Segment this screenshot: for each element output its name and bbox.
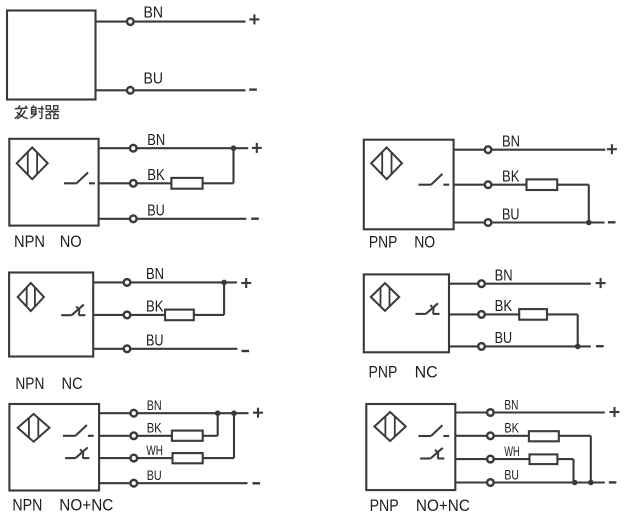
svg-text:BU: BU	[147, 203, 165, 220]
svg-text:BN: BN	[147, 132, 165, 149]
svg-text:NO: NO	[414, 232, 435, 251]
svg-text:BK: BK	[502, 169, 520, 186]
svg-text:PNP: PNP	[369, 362, 398, 381]
svg-text:NC: NC	[415, 362, 438, 381]
svg-text:NPN: NPN	[14, 232, 45, 251]
svg-text:BN: BN	[144, 4, 164, 21]
svg-text:BN: BN	[146, 266, 164, 283]
svg-text:BU: BU	[504, 466, 519, 482]
svg-text:WH: WH	[146, 442, 163, 458]
svg-text:NC: NC	[62, 374, 83, 393]
svg-text:NO: NO	[60, 232, 82, 251]
svg-text:BU: BU	[495, 330, 512, 347]
svg-text:BK: BK	[146, 299, 164, 316]
svg-text:PNP: PNP	[369, 232, 398, 251]
svg-text:BN: BN	[502, 134, 520, 151]
svg-text:BK: BK	[147, 420, 163, 436]
svg-text:BN: BN	[504, 396, 518, 412]
svg-text:BU: BU	[502, 206, 520, 223]
svg-text:NPN: NPN	[12, 495, 42, 514]
svg-text:PNP: PNP	[370, 496, 399, 515]
svg-text:NO+NC: NO+NC	[59, 495, 113, 514]
svg-text:BU: BU	[147, 467, 162, 483]
svg-text:BU: BU	[146, 333, 164, 350]
svg-text:BK: BK	[495, 298, 513, 315]
svg-text:BK: BK	[147, 167, 165, 184]
svg-text:NPN: NPN	[15, 374, 44, 393]
svg-text:BK: BK	[504, 420, 519, 436]
svg-text:BU: BU	[144, 71, 164, 88]
svg-text:BN: BN	[495, 268, 513, 285]
svg-text:WH: WH	[504, 443, 520, 459]
svg-text:NO+NC: NO+NC	[416, 496, 470, 515]
svg-text:BN: BN	[147, 397, 162, 413]
